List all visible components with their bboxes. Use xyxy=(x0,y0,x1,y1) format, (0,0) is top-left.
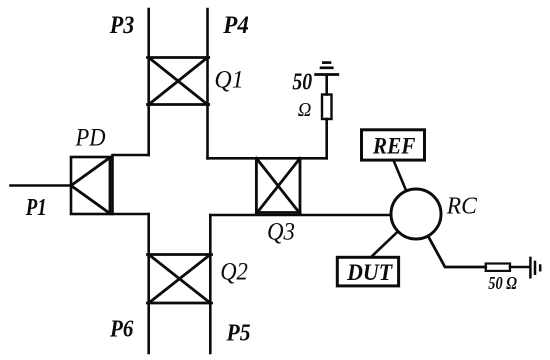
wire resistor to ground (bottom right) xyxy=(510,266,529,269)
wire Q2 left vertical line down to P6 xyxy=(147,214,150,353)
resistor 50 ohm (top) xyxy=(322,95,332,120)
wire P4 vertical line into Q1 right side, then right along upper bus xyxy=(206,9,209,158)
resistor 50 ohm (bottom right) xyxy=(486,264,510,271)
svg-text:P4: P4 xyxy=(222,12,249,39)
svg-text:DUT: DUT xyxy=(346,260,393,286)
svg-text:Q3: Q3 xyxy=(267,219,295,246)
power divider PD box xyxy=(71,157,113,214)
svg-text:Q2: Q2 xyxy=(220,259,248,286)
wire RC to 50 ohm termination (diagonal) xyxy=(428,236,486,267)
wire DUT box to RC xyxy=(371,231,398,257)
ground (top) xyxy=(316,63,338,75)
svg-text:Q1: Q1 xyxy=(214,67,243,94)
coupler Q2 xyxy=(148,255,212,304)
svg-text:P6: P6 xyxy=(109,317,133,343)
svg-text:50 Ω: 50 Ω xyxy=(488,273,517,293)
coupler Q3 xyxy=(256,158,300,213)
wire from upper bus up to 50 ohm resistor xyxy=(325,119,328,158)
ground (bottom right, rotated) xyxy=(530,258,540,277)
svg-text:P5: P5 xyxy=(226,321,251,347)
wire upper bus from Q1 right line to 50 ohm branch (top edge of Q3) xyxy=(208,157,327,160)
box DUT xyxy=(337,257,398,286)
svg-text:RC: RC xyxy=(446,194,478,220)
svg-text:PD: PD xyxy=(75,125,106,152)
svg-text:REF: REF xyxy=(372,133,416,159)
wire PD bottom output to Q2 left line xyxy=(113,213,149,216)
power divider PD triangle xyxy=(71,158,110,214)
svg-text:Ω: Ω xyxy=(298,99,312,121)
wire P3 vertical line into Q1 left side xyxy=(147,9,150,155)
svg-text:50: 50 xyxy=(292,69,312,95)
wire PD top output to P3 line xyxy=(113,154,149,157)
wire lower bus from Q2 right line to rotary connector RC xyxy=(210,214,392,217)
rotary connector RC circle xyxy=(391,189,441,239)
svg-text:P3: P3 xyxy=(109,12,134,39)
wire Q2 right vertical line down to P5 xyxy=(209,215,212,353)
wire resistor to ground (top) xyxy=(325,76,328,95)
coupler Q1 xyxy=(148,58,209,105)
wire REF box to RC xyxy=(393,160,406,191)
svg-text:P1: P1 xyxy=(25,195,47,221)
wire P1 input line xyxy=(11,184,72,187)
box REF xyxy=(362,130,425,160)
